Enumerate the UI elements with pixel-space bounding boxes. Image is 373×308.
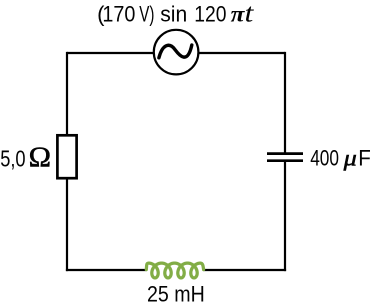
svg-text:sin: sin (160, 1, 187, 26)
AC source V1 circle (154, 30, 199, 75)
inductor L coil (green) (146, 263, 203, 278)
capacitor C bottom plate (267, 159, 303, 162)
svg-text:400: 400 (310, 146, 339, 171)
svg-text:5,0: 5,0 (0, 146, 25, 172)
svg-text:F: F (358, 146, 371, 171)
wire right segment lower (284, 161, 286, 271)
wire top segment right of source (198, 52, 285, 54)
svg-text:120: 120 (194, 1, 226, 26)
wire bottom segment right of inductor (204, 269, 287, 271)
capacitor C top plate (267, 152, 303, 155)
svg-text:V): V) (139, 1, 154, 26)
wire right segment upper (284, 52, 286, 154)
wire top-left loop: left, top, right, bottom segments (66, 52, 286, 271)
wire top segment left of source (67, 52, 154, 54)
AC source sine symbol (159, 45, 192, 58)
svg-text:Ω: Ω (29, 142, 51, 174)
svg-text:25 mH: 25 mH (147, 282, 205, 307)
svg-text:170: 170 (102, 1, 135, 26)
wire left segment lower (66, 178, 68, 272)
svg-text:t: t (245, 0, 255, 27)
svg-text:π: π (231, 1, 246, 27)
resistor R (rectangle) (57, 135, 76, 178)
wire left segment upper (66, 52, 68, 136)
wire bottom segment left of inductor (66, 269, 147, 271)
svg-text:μ: μ (342, 146, 356, 171)
